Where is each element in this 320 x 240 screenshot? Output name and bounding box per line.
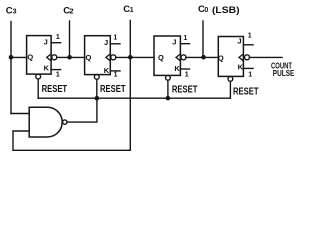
- K tie-high stub U1 with label 1: [51, 70, 61, 79]
- clock edge triangle U3: [176, 54, 180, 61]
- svg-text:RESET: RESET: [42, 84, 68, 95]
- svg-text:(LSB): (LSB): [212, 5, 240, 16]
- svg-text:1: 1: [248, 72, 252, 79]
- reset pin bubble U2: [94, 75, 99, 80]
- svg-text:Q: Q: [158, 53, 164, 62]
- svg-text:3: 3: [13, 8, 17, 15]
- nand gate G1 body: [29, 107, 62, 137]
- svg-text:1: 1: [56, 34, 60, 41]
- wire NAND input A: [11, 113, 29, 115]
- wire C0 vertical drop: [202, 21, 204, 57]
- node junction C1/Q of U3: [128, 55, 133, 60]
- svg-text:RESET: RESET: [233, 86, 259, 97]
- svg-text:K: K: [238, 63, 244, 72]
- svg-text:J: J: [104, 38, 108, 47]
- node junction reset bus / U3 reset drop: [166, 96, 171, 101]
- svg-text:K: K: [104, 66, 110, 75]
- wire reset drop U4: [229, 81, 231, 98]
- svg-text:RESET: RESET: [172, 84, 198, 95]
- flip-flop U2 (C2 stage) body: [85, 36, 111, 75]
- svg-text:K: K: [44, 64, 50, 73]
- K tie-high stub U3 with label 1: [180, 69, 189, 78]
- wire reset drop U3: [167, 80, 169, 98]
- flip-flop U3 (C1 stage) body: [154, 36, 180, 75]
- flip-flop U1 (C3 stage) body: [27, 36, 51, 75]
- wire Q output of U3 to clock of U2: [116, 56, 154, 58]
- clock edge triangle U2: [106, 54, 110, 61]
- svg-text:Q: Q: [27, 52, 33, 61]
- svg-text:1: 1: [113, 34, 117, 41]
- node C1 label: [123, 4, 134, 15]
- node C2 label: [63, 5, 73, 16]
- svg-text:1: 1: [248, 33, 252, 40]
- wire reset drop U2: [96, 79, 98, 98]
- wire bottom rail from C1 to NAND input B: [13, 131, 130, 150]
- wire Q output of U4 to clock of U3: [186, 56, 218, 58]
- J tie-high stub U2 with label 1: [110, 34, 120, 43]
- wire C1 vertical drop: [129, 21, 131, 151]
- node junction C3/Q of U1: [9, 55, 14, 60]
- wire reset bus: [38, 97, 230, 99]
- node C3 label: [6, 5, 17, 16]
- clock bubble U2: [111, 55, 116, 60]
- clock edge triangle U1: [47, 54, 51, 61]
- svg-text:1: 1: [56, 71, 60, 78]
- svg-text:1: 1: [114, 72, 118, 79]
- J tie-high stub U3 with label 1: [180, 35, 189, 44]
- wire C3 vertical drop: [10, 22, 12, 114]
- svg-text:J: J: [172, 38, 176, 47]
- wire Q output of U2 to clock of U1: [57, 56, 85, 58]
- svg-text:RESET: RESET: [100, 84, 126, 95]
- wire C2 vertical drop: [69, 21, 71, 57]
- svg-text:PULSE: PULSE: [273, 68, 295, 78]
- svg-text:Q: Q: [218, 54, 224, 63]
- wire count pulse input to clock of U4: [250, 56, 283, 58]
- svg-text:J: J: [237, 37, 241, 46]
- svg-text:1: 1: [185, 71, 189, 78]
- svg-text:0: 0: [204, 7, 208, 14]
- node junction C0/Q of U4: [201, 55, 206, 60]
- label COUNT PULSE: [271, 60, 295, 78]
- svg-text:2: 2: [69, 6, 73, 15]
- svg-text:1: 1: [183, 35, 187, 42]
- clock bubble U1: [52, 55, 57, 60]
- svg-text:J: J: [44, 37, 48, 46]
- flip-flop U4 (C0 stage) body: [218, 37, 244, 77]
- node C0 (LSB) label: [198, 4, 240, 16]
- J tie-high stub U1 with label 1: [51, 34, 61, 43]
- wire Q output of U1 to node C3: [11, 56, 27, 58]
- clock edge triangle U4: [239, 54, 243, 61]
- clock bubble U3: [181, 55, 186, 60]
- wire reset drop U1: [37, 79, 39, 98]
- reset pin bubble U3: [166, 75, 171, 80]
- svg-text:1: 1: [130, 7, 134, 14]
- wire NAND output to reset bus: [67, 98, 97, 122]
- K tie-high stub U4 with label 1: [243, 68, 253, 78]
- clock bubble U4: [245, 55, 250, 60]
- node junction C2/Q of U2: [67, 55, 72, 60]
- node junction reset bus / NAND output riser: [95, 96, 100, 101]
- reset pin bubble U1: [36, 74, 41, 79]
- J tie-high stub U4 with label 1: [243, 33, 253, 45]
- K tie-high stub U2 with label 1: [110, 71, 120, 79]
- reset pin bubble U4: [228, 77, 233, 82]
- svg-text:K: K: [174, 64, 180, 73]
- svg-text:Q: Q: [86, 53, 92, 62]
- nand gate G1 output bubble: [63, 120, 67, 124]
